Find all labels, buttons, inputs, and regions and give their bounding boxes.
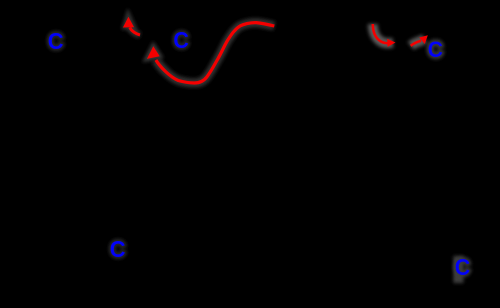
carbon label C5 (blue) <box>453 254 470 283</box>
svg-text:C: C <box>48 27 64 54</box>
skeleton middle molecule (black on black) <box>192 40 345 165</box>
carbon label C2 (blue) <box>173 27 188 53</box>
carbon label C4 (blue) <box>110 235 126 262</box>
carbon label C3 (blue) <box>428 36 443 62</box>
curved arrow 1: small, carbonyl pi bond to oxygen (red) <box>123 17 140 35</box>
svg-text:C: C <box>428 36 443 62</box>
svg-text:C: C <box>455 254 470 280</box>
skeleton left molecule (black on black, invisible as in source) <box>60 30 160 250</box>
curved arrow 3: O-H bond electrons (red) <box>373 24 396 47</box>
carbon label C1 (blue) <box>48 27 64 54</box>
svg-text:C: C <box>173 27 188 53</box>
skeleton right molecule (black on black) <box>355 42 470 255</box>
curved arrow 2: large U-curve, nucleophile attack (red) <box>147 23 274 83</box>
svg-text:C: C <box>110 235 126 262</box>
curved arrow 4: lone pair to proton (red) <box>411 35 428 46</box>
